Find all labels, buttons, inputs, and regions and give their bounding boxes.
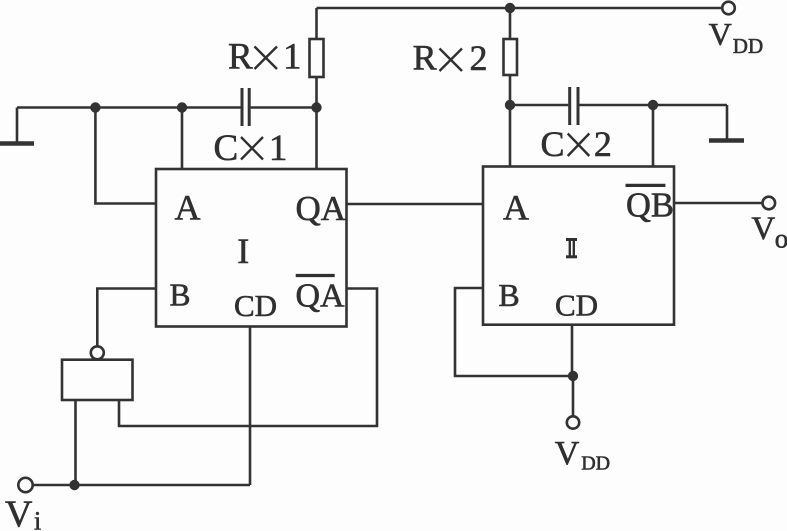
svg-text:V: V xyxy=(555,435,580,472)
node Vi junction xyxy=(69,480,79,490)
capacitor C2 xyxy=(570,87,578,125)
ground left xyxy=(16,108,19,143)
svg-text:CD: CD xyxy=(234,288,277,323)
svg-text:V: V xyxy=(751,211,775,247)
node R1/C1 junction xyxy=(311,102,321,112)
ground right xyxy=(726,105,729,139)
wire R2 bottom lead xyxy=(509,75,512,105)
svg-text:A: A xyxy=(503,188,529,228)
svg-text:B: B xyxy=(169,278,190,313)
svg-text:DD: DD xyxy=(733,34,763,58)
svg-text:B: B xyxy=(498,277,519,313)
wire right node line, R2 node to C2 left plate xyxy=(510,104,568,107)
wire R2/C2 node down to top of II xyxy=(509,105,512,167)
node A-branch junction xyxy=(90,102,100,112)
wire C1 right plate to R1 node xyxy=(251,106,317,109)
svg-text:R: R xyxy=(413,38,437,78)
svg-text:C: C xyxy=(214,128,239,169)
wire left node line, ground to C1 left plate xyxy=(17,106,241,109)
wire down to VDD bottom terminal xyxy=(572,376,575,416)
terminal VDD top xyxy=(722,2,735,15)
wire R1 bottom lead xyxy=(315,77,318,108)
svg-text:CD: CD xyxy=(555,287,598,322)
wire Vi line xyxy=(33,484,250,487)
svg-text:2: 2 xyxy=(470,38,488,78)
label numeral II xyxy=(566,238,577,258)
terminal Vo xyxy=(763,197,776,210)
capacitor C1 xyxy=(242,88,249,126)
wire R1/C1 node down to top of I xyxy=(315,108,318,170)
svg-text:1: 1 xyxy=(283,37,302,78)
resistor R2 xyxy=(504,39,518,75)
svg-text:A: A xyxy=(175,188,201,228)
block I monostable 1 xyxy=(156,169,347,327)
wire R2 top lead xyxy=(509,8,512,39)
wire CD pin of II down xyxy=(571,325,574,376)
wire C1-left node down to top of I xyxy=(181,108,184,170)
svg-text:DD: DD xyxy=(581,452,610,474)
terminal Vi xyxy=(18,478,32,492)
wire QA of I to A of II xyxy=(347,203,484,206)
svg-text:V: V xyxy=(709,16,732,52)
wire B pin of I down to trigger bubble xyxy=(97,289,156,347)
svg-text:i: i xyxy=(34,507,41,531)
wire Vi line up to CD pin of I xyxy=(249,327,252,486)
terminal VDD bottom xyxy=(567,416,579,428)
wire QB-bar of II to Vo terminal xyxy=(674,202,762,205)
svg-text:QA: QA xyxy=(296,278,346,315)
svg-text:1: 1 xyxy=(269,128,288,169)
wire node down to A pin of I xyxy=(95,108,156,204)
svg-text:2: 2 xyxy=(594,124,612,164)
svg-text:QB: QB xyxy=(626,187,674,225)
svg-text:V: V xyxy=(5,494,33,531)
wire top VDD rail xyxy=(317,7,723,10)
svg-text:C: C xyxy=(541,124,565,164)
svg-text:R: R xyxy=(228,37,253,78)
trigger box xyxy=(62,360,133,400)
block II monostable 2 xyxy=(483,167,674,325)
node junction top rail / R2 xyxy=(505,3,515,13)
svg-text:I: I xyxy=(237,231,249,271)
node C1-left junction xyxy=(177,102,187,112)
bubble on trigger box xyxy=(91,346,104,359)
wire C2-right node down to top of II xyxy=(652,105,655,167)
wire QA-bar of I loop to trigger box right leg xyxy=(119,289,377,427)
node CD/B/VDD junction xyxy=(568,371,578,381)
wire trigger box left leg down to Vi line xyxy=(74,400,77,485)
svg-text:QA: QA xyxy=(296,189,347,228)
wire B pin of II loop to CD node xyxy=(455,288,573,376)
wire R1 top lead xyxy=(315,8,318,39)
resistor R1 xyxy=(310,39,324,77)
node C2 right junction xyxy=(648,100,658,110)
wire C2 right plate to ground branch xyxy=(579,104,727,107)
svg-text:o: o xyxy=(775,223,787,253)
node R2/C2 junction xyxy=(505,100,515,110)
